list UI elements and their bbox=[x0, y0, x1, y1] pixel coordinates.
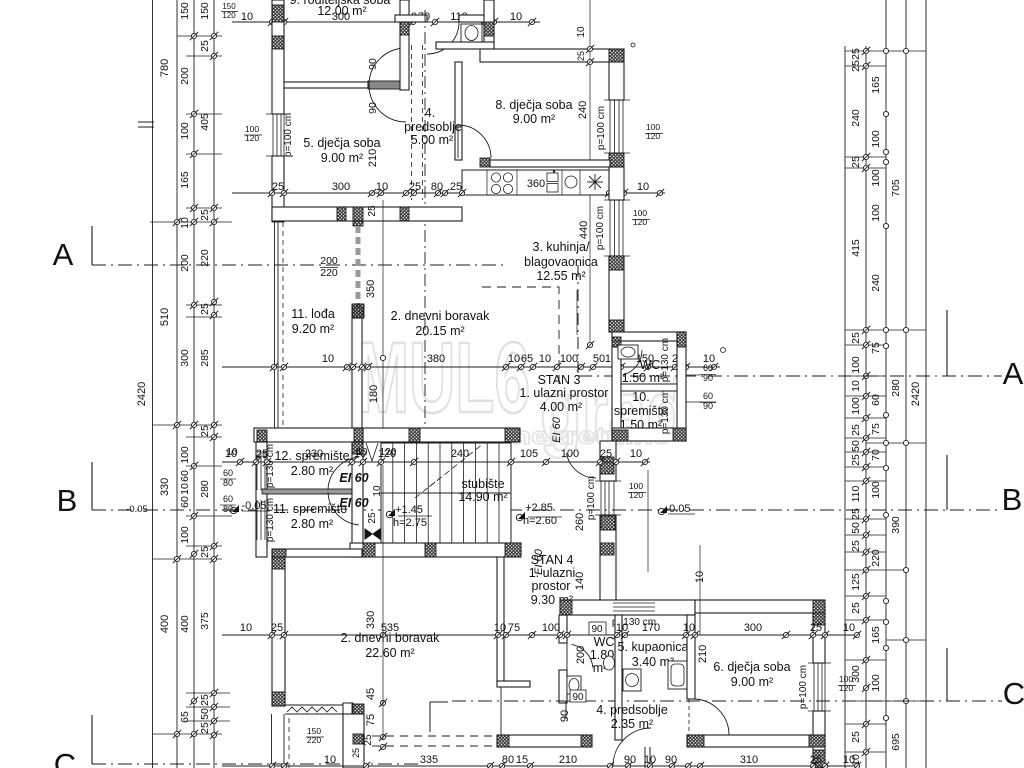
wall stub below x501 bbox=[500, 687, 502, 735]
boravak left wall bbox=[352, 318, 362, 428]
spremiste right wall bbox=[352, 442, 363, 557]
dim 440 kitchen bbox=[589, 195, 591, 345]
svg-text:25: 25 bbox=[600, 448, 612, 460]
section line C left bbox=[91, 715, 93, 764]
svg-text:9.00 m²: 9.00 m² bbox=[321, 151, 363, 165]
svg-text:25: 25 bbox=[363, 734, 374, 746]
svg-text:25: 25 bbox=[367, 512, 378, 524]
top dimension row bbox=[232, 21, 540, 23]
svg-text:25: 25 bbox=[850, 60, 862, 72]
svg-text:12.55 m²: 12.55 m² bbox=[536, 269, 585, 283]
right ladder vertical line x=845 bbox=[844, 46, 846, 768]
svg-text:25: 25 bbox=[367, 205, 378, 217]
svg-text:h=2.75: h=2.75 bbox=[393, 517, 427, 529]
svg-text:510: 510 bbox=[159, 308, 171, 326]
stairs outline bbox=[381, 443, 511, 543]
svg-text:400: 400 bbox=[159, 615, 171, 633]
svg-text:100: 100 bbox=[870, 130, 882, 148]
WC toilet bbox=[618, 345, 638, 359]
section line A right bbox=[578, 375, 1002, 377]
window p=130 in wall above bathroom bbox=[613, 602, 655, 604]
svg-text:10: 10 bbox=[850, 380, 862, 392]
wall above WC kupaonica bbox=[560, 600, 695, 615]
svg-text:3. kuhinja/: 3. kuhinja/ bbox=[533, 240, 591, 254]
bracket near predsoblje bbox=[565, 701, 567, 719]
door leaf predsoblje bottom bbox=[644, 747, 646, 768]
svg-text:120: 120 bbox=[380, 447, 397, 458]
svg-text:280: 280 bbox=[199, 480, 211, 498]
washing machine bbox=[623, 669, 641, 691]
room8 left wall bbox=[455, 62, 462, 160]
svg-text:10: 10 bbox=[843, 622, 855, 634]
window right wall p=100 upper bbox=[609, 100, 611, 153]
svg-text:120: 120 bbox=[629, 490, 643, 500]
svg-text:p=100 cm: p=100 cm bbox=[596, 106, 607, 150]
top wall bathroom bbox=[395, 15, 427, 22]
svg-text:5. kupaonica: 5. kupaonica bbox=[618, 640, 689, 654]
loda right wall top hatch bbox=[353, 207, 363, 226]
svg-text:200: 200 bbox=[575, 646, 587, 664]
svg-text:10.: 10. bbox=[632, 390, 649, 404]
svg-text:335: 335 bbox=[420, 754, 438, 766]
svg-text:230: 230 bbox=[305, 448, 323, 460]
svg-text:125: 125 bbox=[850, 573, 862, 591]
svg-text:280: 280 bbox=[890, 379, 902, 397]
svg-text:STAN 4: STAN 4 bbox=[531, 553, 574, 567]
svg-text:-0.05: -0.05 bbox=[241, 500, 266, 512]
svg-text:300: 300 bbox=[179, 349, 191, 367]
right ladder ticks chain x=906 bbox=[903, 48, 908, 53]
svg-text:EI 60: EI 60 bbox=[339, 471, 368, 485]
vertical ext line x648 bbox=[647, 470, 649, 572]
svg-text:165: 165 bbox=[179, 171, 191, 189]
svg-text:2420: 2420 bbox=[910, 382, 922, 406]
lower apartment top-left wall bbox=[272, 549, 362, 557]
svg-text:90: 90 bbox=[572, 692, 584, 703]
svg-text:+1.45: +1.45 bbox=[395, 504, 423, 516]
svg-text:A: A bbox=[53, 237, 74, 272]
left ladder ticks chain x=194 bbox=[190, 32, 198, 40]
svg-text:50: 50 bbox=[850, 440, 862, 452]
room8 door arc bbox=[458, 125, 491, 158]
right ladder ticks chain x=886 bbox=[883, 48, 888, 53]
dashed lines open terrace bbox=[372, 735, 497, 737]
svg-text:22.60 m²: 22.60 m² bbox=[365, 646, 414, 660]
svg-text:220: 220 bbox=[870, 549, 882, 567]
stair arrow dashed bbox=[429, 443, 484, 487]
corner wall x345 lower left bbox=[343, 703, 353, 714]
svg-text:440: 440 bbox=[578, 221, 590, 239]
spremiste rooms left wall bbox=[256, 442, 267, 557]
svg-text:70: 70 bbox=[870, 449, 882, 461]
WC door arc lower bbox=[572, 644, 593, 667]
bathroom door arc bbox=[427, 22, 459, 54]
left ladder ticks chain x=214 bbox=[210, 32, 218, 40]
svg-text:MUL6: MUL6 bbox=[356, 322, 530, 434]
svg-text:-0.05: -0.05 bbox=[665, 503, 690, 515]
interior wall x498 vertical bbox=[497, 557, 504, 683]
svg-text:EI 60: EI 60 bbox=[339, 496, 368, 510]
svg-text:C: C bbox=[1003, 676, 1024, 711]
svg-text:210: 210 bbox=[367, 149, 379, 167]
WC block bottom wall bbox=[612, 428, 686, 441]
svg-text:25: 25 bbox=[199, 425, 211, 437]
svg-text:65: 65 bbox=[179, 711, 191, 723]
svg-text:60: 60 bbox=[703, 363, 713, 373]
svg-text:180: 180 bbox=[368, 385, 380, 403]
svg-text:25: 25 bbox=[576, 51, 586, 61]
svg-text:285: 285 bbox=[199, 349, 211, 367]
svg-text:150: 150 bbox=[199, 2, 211, 20]
svg-text:10: 10 bbox=[179, 483, 191, 495]
elevation marker +2.85 bbox=[518, 512, 525, 519]
loda left edge lines bbox=[274, 222, 276, 428]
room8 right exterior wall upper bbox=[609, 62, 624, 100]
svg-text:400: 400 bbox=[179, 615, 191, 633]
bathroom sink bbox=[461, 24, 482, 42]
svg-text:210: 210 bbox=[697, 645, 709, 663]
right ladder ticks chain x=866 bbox=[862, 47, 870, 55]
svg-text:220: 220 bbox=[307, 735, 321, 745]
WC block outer walls bbox=[612, 332, 686, 341]
balcony sliding door lower left bbox=[285, 704, 343, 706]
WC lower sink bbox=[604, 656, 615, 670]
svg-text:100: 100 bbox=[870, 169, 882, 187]
svg-text:stubište: stubište bbox=[461, 477, 504, 491]
svg-text:50: 50 bbox=[850, 522, 862, 534]
svg-text:220: 220 bbox=[320, 267, 338, 279]
svg-text:415: 415 bbox=[850, 239, 862, 257]
svg-text:p=100 cm: p=100 cm bbox=[595, 206, 606, 250]
svg-text:50: 50 bbox=[593, 353, 605, 365]
window in left wall p=100 bbox=[272, 114, 274, 156]
section letter B right bracket bbox=[946, 455, 948, 510]
spremiste door arcs bbox=[328, 492, 359, 525]
section line C right bbox=[452, 700, 1002, 702]
svg-text:100: 100 bbox=[560, 353, 578, 365]
upper apartment bottom wall / loda sill bbox=[254, 428, 363, 442]
svg-text:1. ulazni prostor: 1. ulazni prostor bbox=[520, 386, 609, 400]
svg-text:75: 75 bbox=[365, 714, 377, 726]
interior wall x559 vertical bbox=[559, 615, 567, 643]
svg-text:8. dječja soba: 8. dječja soba bbox=[495, 98, 572, 112]
svg-text:B: B bbox=[1002, 482, 1023, 517]
svg-text:140: 140 bbox=[574, 572, 586, 590]
svg-text:11. spremište: 11. spremište bbox=[273, 502, 347, 516]
svg-text:25: 25 bbox=[850, 602, 862, 614]
svg-text:15: 15 bbox=[516, 754, 528, 766]
svg-text:80: 80 bbox=[223, 478, 233, 488]
room5 bottom dimension row bbox=[232, 192, 462, 194]
door predsoblje to room6 arc bbox=[688, 699, 690, 735]
svg-text:10: 10 bbox=[324, 754, 336, 766]
svg-text:240: 240 bbox=[451, 448, 469, 460]
svg-text:100: 100 bbox=[870, 481, 882, 499]
stairs bottom wall bbox=[350, 543, 521, 557]
svg-text:150: 150 bbox=[222, 2, 236, 11]
svg-text:90: 90 bbox=[591, 624, 603, 635]
svg-text:25: 25 bbox=[850, 156, 862, 168]
dim 240 room8 bbox=[589, 0, 591, 160]
room8 top wall bbox=[480, 49, 624, 62]
svg-text:350: 350 bbox=[365, 280, 377, 298]
svg-text:25: 25 bbox=[199, 546, 211, 558]
svg-text:50: 50 bbox=[199, 708, 211, 720]
svg-text:150: 150 bbox=[179, 2, 191, 20]
svg-text:12.00 m²: 12.00 m² bbox=[317, 4, 366, 18]
svg-text:100: 100 bbox=[561, 448, 579, 460]
elevation marker +1.45 bbox=[388, 509, 395, 516]
svg-text:10: 10 bbox=[843, 754, 855, 766]
svg-text:780: 780 bbox=[159, 59, 171, 77]
svg-text:WC: WC bbox=[640, 358, 661, 372]
door width 90 boxed bbox=[589, 622, 606, 635]
extension line x383 upper bbox=[382, 465, 384, 740]
svg-text:60: 60 bbox=[223, 494, 233, 504]
spremiste divider shelf bbox=[262, 489, 361, 494]
left edge equal marks bbox=[138, 121, 154, 123]
svg-text:390: 390 bbox=[890, 516, 902, 534]
svg-text:100: 100 bbox=[179, 122, 191, 140]
svg-text:65: 65 bbox=[521, 353, 533, 365]
section letter C right bracket bbox=[946, 648, 948, 701]
WC door arc bbox=[623, 350, 642, 375]
svg-text:210: 210 bbox=[559, 754, 577, 766]
stair treads bbox=[392, 443, 394, 543]
left ladder vertical line x=194 bbox=[193, 0, 195, 768]
svg-text:360: 360 bbox=[527, 178, 545, 190]
left exterior wall upper bbox=[272, 0, 284, 114]
left ladder vertical line x=152 bbox=[152, 0, 154, 768]
kitchen star symbol bbox=[587, 174, 603, 190]
svg-text:10: 10 bbox=[226, 447, 238, 458]
section line C bracket bbox=[429, 702, 431, 732]
svg-text:120: 120 bbox=[245, 133, 259, 143]
room8 bottom wall bbox=[490, 160, 610, 167]
svg-text:25: 25 bbox=[199, 209, 211, 221]
section line A jog vertical bbox=[577, 265, 579, 376]
svg-text:90: 90 bbox=[559, 710, 571, 722]
svg-text:25: 25 bbox=[256, 450, 268, 461]
svg-text:10: 10 bbox=[576, 26, 587, 38]
wall between kupaonica and room6 bbox=[687, 615, 695, 699]
svg-text:5. dječja soba: 5. dječja soba bbox=[303, 136, 380, 150]
wall x485 vertical top bbox=[484, 0, 494, 49]
svg-text:60: 60 bbox=[179, 496, 191, 508]
left ladder vertical line x=214 bbox=[213, 0, 215, 768]
left ladder vertical line x=177 bbox=[176, 0, 178, 768]
svg-text:25: 25 bbox=[850, 731, 862, 743]
svg-text:2.80 m²: 2.80 m² bbox=[291, 517, 333, 531]
svg-text:165: 165 bbox=[870, 626, 882, 644]
svg-text:2. dnevni boravak: 2. dnevni boravak bbox=[391, 309, 490, 323]
right ladder vertical line x=866 bbox=[865, 46, 867, 768]
loggia edge below left bbox=[271, 714, 273, 768]
svg-text:25: 25 bbox=[850, 540, 862, 552]
hinge circle top right bbox=[631, 43, 635, 47]
svg-text:9.20 m²: 9.20 m² bbox=[292, 322, 334, 336]
svg-text:p=130 cm: p=130 cm bbox=[660, 338, 671, 382]
svg-text:EI 60: EI 60 bbox=[551, 416, 563, 443]
svg-text:200: 200 bbox=[179, 67, 191, 85]
svg-text:blagovaonica: blagovaonica bbox=[524, 255, 598, 269]
svg-text:11. lođa: 11. lođa bbox=[291, 307, 335, 321]
bottom wall lower apartment bbox=[497, 735, 592, 747]
svg-text:p=130 cm: p=130 cm bbox=[660, 390, 671, 434]
svg-text:4.00 m²: 4.00 m² bbox=[540, 400, 582, 414]
svg-text:25: 25 bbox=[850, 48, 862, 60]
svg-text:220: 220 bbox=[199, 249, 211, 267]
svg-text:165: 165 bbox=[870, 76, 882, 94]
left ladder connector rows bbox=[177, 35, 222, 37]
svg-text:300: 300 bbox=[744, 622, 762, 634]
svg-text:25: 25 bbox=[199, 40, 211, 52]
svg-text:2.35 m²: 2.35 m² bbox=[611, 717, 653, 731]
interior wall room5 top bbox=[284, 82, 368, 88]
svg-text:75: 75 bbox=[508, 622, 520, 634]
svg-text:10: 10 bbox=[356, 447, 368, 458]
section line A left bbox=[91, 226, 93, 265]
svg-text:100: 100 bbox=[870, 674, 882, 692]
svg-text:B: B bbox=[57, 483, 78, 518]
svg-text:705: 705 bbox=[890, 179, 902, 197]
svg-text:170: 170 bbox=[642, 622, 660, 634]
svg-text:10: 10 bbox=[179, 217, 191, 229]
svg-text:1. ulazni: 1. ulazni bbox=[529, 566, 576, 580]
svg-text:120: 120 bbox=[646, 131, 660, 141]
kupaonica wall x615 bbox=[615, 615, 622, 740]
svg-text:200: 200 bbox=[320, 255, 338, 267]
window stair hall p=100 bbox=[600, 481, 602, 515]
svg-text:2420: 2420 bbox=[136, 382, 148, 406]
svg-text:105: 105 bbox=[520, 448, 538, 460]
svg-text:C: C bbox=[54, 747, 76, 768]
svg-text:5.00 m²: 5.00 m² bbox=[411, 133, 453, 147]
hinge circle bbox=[721, 348, 726, 353]
svg-text:110: 110 bbox=[850, 485, 862, 502]
svg-text:10: 10 bbox=[241, 11, 253, 23]
svg-text:10: 10 bbox=[494, 622, 506, 634]
svg-text:90: 90 bbox=[367, 102, 379, 114]
WC divider wall bbox=[621, 384, 677, 391]
left ladder ticks chain x=177 bbox=[173, 218, 181, 226]
elevation marker -0.05 left bbox=[232, 505, 239, 512]
interior wall stub horizontal bbox=[497, 681, 530, 687]
svg-text:10: 10 bbox=[630, 448, 642, 460]
svg-text:60: 60 bbox=[179, 470, 191, 482]
bathroom bottom wall bbox=[436, 42, 494, 49]
svg-text:p=100 cm: p=100 cm bbox=[586, 476, 597, 520]
predsoblje dashed ceiling lines bbox=[411, 45, 413, 200]
watermark logo text bbox=[356, 322, 688, 458]
dimension row y635 bbox=[222, 634, 860, 636]
svg-text:prostor: prostor bbox=[532, 579, 571, 593]
svg-text:75: 75 bbox=[870, 342, 882, 354]
double door room5 bbox=[368, 81, 406, 89]
kitchen counter bbox=[462, 170, 609, 195]
loda right glass partition bbox=[356, 226, 361, 307]
svg-text:25: 25 bbox=[199, 694, 211, 706]
fire diamond bbox=[365, 529, 380, 539]
bottom dimension row bbox=[222, 765, 860, 767]
svg-text:WC: WC bbox=[594, 635, 615, 649]
right ladder vertical line x=926 bbox=[925, 0, 927, 768]
svg-text:25: 25 bbox=[850, 332, 862, 344]
svg-text:25: 25 bbox=[850, 454, 862, 466]
svg-text:60: 60 bbox=[223, 468, 233, 478]
svg-text:240: 240 bbox=[577, 101, 589, 119]
svg-text:STAN 3: STAN 3 bbox=[538, 373, 581, 387]
svg-text:10: 10 bbox=[637, 181, 649, 193]
svg-text:75: 75 bbox=[870, 423, 882, 435]
svg-text:405: 405 bbox=[199, 113, 211, 131]
svg-text:2.80 m²: 2.80 m² bbox=[291, 464, 333, 478]
svg-text:100: 100 bbox=[850, 356, 862, 374]
elevation marker -0.05 right bbox=[660, 506, 667, 513]
right exterior wall below kitchen bbox=[609, 167, 624, 200]
extension line x577 for 75 dim bbox=[576, 290, 578, 335]
right ladder connector rows bbox=[845, 50, 926, 52]
svg-text:6. dječja soba: 6. dječja soba bbox=[713, 660, 790, 674]
svg-text:260: 260 bbox=[574, 513, 586, 531]
section line B bbox=[91, 462, 93, 510]
svg-text:14.90 m²: 14.90 m² bbox=[458, 490, 507, 504]
svg-text:10: 10 bbox=[510, 11, 522, 23]
right ladder vertical line x=906 bbox=[905, 0, 907, 768]
svg-text:310: 310 bbox=[740, 754, 758, 766]
section letter A right bracket bbox=[946, 310, 948, 376]
svg-text:10: 10 bbox=[240, 622, 252, 634]
svg-text:p=100 cm: p=100 cm bbox=[283, 113, 294, 157]
main dimension row y367 bbox=[222, 366, 720, 368]
svg-text:20.15 m²: 20.15 m² bbox=[415, 324, 464, 338]
kitchen dashed zone bbox=[482, 287, 559, 385]
svg-text:380: 380 bbox=[427, 353, 445, 365]
kitchen sink bbox=[547, 173, 558, 182]
svg-text:330: 330 bbox=[159, 478, 171, 496]
right ladder vertical line x=886 bbox=[885, 0, 887, 768]
svg-text:+2.85: +2.85 bbox=[525, 502, 553, 514]
room6 top wall bbox=[695, 600, 825, 613]
svg-text:9.00 m²: 9.00 m² bbox=[513, 112, 555, 126]
svg-text:90: 90 bbox=[367, 58, 379, 70]
svg-text:100: 100 bbox=[870, 204, 882, 222]
svg-text:4. predsoblje: 4. predsoblje bbox=[596, 703, 668, 717]
boxed 90 predsoblje bbox=[570, 690, 586, 702]
room5 bottom wall bbox=[272, 207, 462, 221]
stair hall right wall bbox=[600, 441, 616, 481]
right exterior wall lower bbox=[813, 613, 825, 663]
svg-text:60: 60 bbox=[870, 394, 882, 406]
bathtub bbox=[668, 661, 687, 689]
svg-text:100: 100 bbox=[542, 622, 560, 634]
stove burners bbox=[491, 173, 500, 182]
svg-text:80: 80 bbox=[223, 504, 233, 514]
svg-text:100: 100 bbox=[179, 446, 191, 464]
stair dimension row y462 bbox=[222, 461, 650, 463]
svg-text:9.00 m²: 9.00 m² bbox=[731, 675, 773, 689]
svg-text:100: 100 bbox=[179, 526, 191, 544]
svg-text:695: 695 bbox=[890, 733, 902, 751]
svg-text:240: 240 bbox=[850, 109, 862, 127]
window right wall p=100 lower bbox=[609, 200, 611, 256]
svg-text:predsoblje: predsoblje bbox=[404, 120, 462, 134]
svg-text:120: 120 bbox=[222, 11, 236, 20]
svg-text:240: 240 bbox=[870, 274, 882, 292]
entry door arc stan4 bbox=[567, 453, 597, 478]
svg-text:300: 300 bbox=[332, 181, 350, 193]
svg-text:100: 100 bbox=[850, 397, 862, 415]
